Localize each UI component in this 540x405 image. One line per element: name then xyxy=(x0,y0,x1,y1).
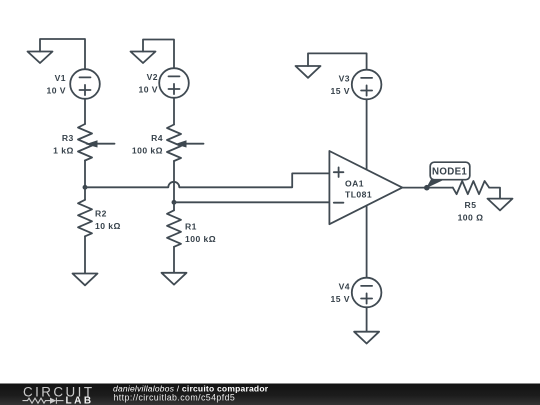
footer title: danielvillalobos / circuito comparador xyxy=(113,383,269,393)
svg-text:R5: R5 xyxy=(465,200,477,210)
voltage source V4 xyxy=(352,278,382,308)
svg-text:V2: V2 xyxy=(147,72,158,82)
wire V2 bottom to R4 xyxy=(173,98,175,125)
label R3 1 kOhm xyxy=(53,133,74,156)
svg-text:100 Ω: 100 Ω xyxy=(458,213,484,223)
label V1 10 V xyxy=(47,73,66,96)
label NODE1 xyxy=(432,167,467,178)
wire R5 to GND7 xyxy=(489,188,500,199)
footer bar xyxy=(0,384,540,405)
label V3 15 V xyxy=(331,74,350,97)
wire R1 to GND4 xyxy=(173,247,175,273)
wire GND5 to V3 top xyxy=(308,53,367,69)
wire op-amp V- pin to V4 xyxy=(366,206,368,278)
logo resistor-diode squiggle xyxy=(23,398,64,404)
svg-text:15 V: 15 V xyxy=(331,86,350,96)
wire R3 to node A xyxy=(84,161,86,188)
wire GND1 to V1 top xyxy=(40,39,85,69)
wire GND3 to V2 top xyxy=(143,40,174,69)
wire node A to op-amp + input (hops over V2 branch) xyxy=(85,173,329,187)
label R2 10 kOhm xyxy=(95,209,121,232)
label OA1 TL081 xyxy=(345,179,372,200)
resistor R2 xyxy=(78,200,92,237)
svg-text:R3: R3 xyxy=(62,133,74,143)
svg-text:V4: V4 xyxy=(339,282,350,292)
logo CIRCUIT text xyxy=(23,384,94,399)
svg-text:R2: R2 xyxy=(95,209,107,219)
svg-text:10 kΩ: 10 kΩ xyxy=(95,221,121,231)
node A junction dot xyxy=(83,185,88,190)
label R1 100 kOhm xyxy=(185,222,216,245)
svg-text:V1: V1 xyxy=(55,73,66,83)
op-amp OA1 TL081 xyxy=(329,151,402,224)
wire R4 to node B xyxy=(173,161,175,202)
node NODE1 dot on output wire xyxy=(424,185,430,191)
ground GND7 (after R5) xyxy=(488,199,513,211)
ground GND5 (V3 minus rail) xyxy=(296,66,321,78)
svg-text:1 kΩ: 1 kΩ xyxy=(53,146,74,156)
ground GND4 (below R1) xyxy=(162,273,187,285)
NODE1 flag box xyxy=(430,162,470,180)
resistor R1 xyxy=(167,210,181,247)
wire V3 bottom to op-amp V+ pin xyxy=(366,99,368,170)
svg-text:TL081: TL081 xyxy=(345,190,372,200)
wire node B to R1 xyxy=(173,202,175,210)
wire node B to op-amp - input xyxy=(174,201,329,203)
svg-text:10 V: 10 V xyxy=(47,86,66,96)
logo LAB text xyxy=(66,395,94,405)
label R4 100 kOhm xyxy=(132,133,163,156)
label V4 15 V xyxy=(331,282,350,305)
NODE1 flag pointer xyxy=(426,179,445,188)
svg-text:100 kΩ: 100 kΩ xyxy=(132,146,163,156)
svg-text:15 V: 15 V xyxy=(331,294,350,304)
svg-text:100 kΩ: 100 kΩ xyxy=(185,234,216,244)
footer url xyxy=(114,392,236,402)
node B junction dot xyxy=(172,200,177,205)
svg-text:R4: R4 xyxy=(151,133,163,143)
resistor R4 (potentiometer 100k) xyxy=(167,125,204,162)
ground GND6 (below V4) xyxy=(354,332,379,344)
svg-text:R1: R1 xyxy=(185,222,197,232)
voltage source V1 xyxy=(70,69,100,99)
ground GND1 (V1 plus rail) xyxy=(28,52,53,64)
resistor R5 xyxy=(453,181,489,194)
svg-text:http://circuitlab.com/c54pfd5: http://circuitlab.com/c54pfd5 xyxy=(114,392,236,402)
label V2 10 V xyxy=(139,72,158,95)
wire V4 to GND6 xyxy=(366,307,368,331)
voltage source V2 xyxy=(159,68,189,98)
ground GND2 (below R2) xyxy=(73,274,98,286)
ground GND3 (V2 plus rail) xyxy=(131,52,156,64)
label R5 100 Ohm xyxy=(458,200,484,223)
svg-text:V3: V3 xyxy=(339,74,350,84)
svg-text:LAB: LAB xyxy=(66,395,94,405)
voltage source V3 xyxy=(352,70,382,100)
wire node A to R2 xyxy=(84,187,86,200)
wire R2 to GND2 xyxy=(84,236,86,273)
svg-text:10 V: 10 V xyxy=(139,85,158,95)
wire op-amp output to R5 xyxy=(402,187,453,189)
svg-text:NODE1: NODE1 xyxy=(432,167,467,178)
resistor R3 (potentiometer 1k) xyxy=(78,124,115,161)
wire V1 bottom to R3 xyxy=(84,99,86,124)
svg-text:OA1: OA1 xyxy=(345,179,364,189)
